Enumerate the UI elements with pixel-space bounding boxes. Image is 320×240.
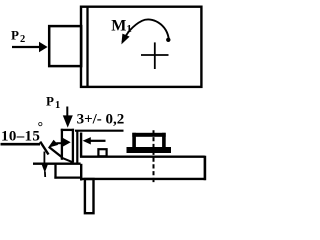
base bar right edge	[204, 156, 207, 181]
blade bevel edge	[61, 157, 74, 162]
gap dimension line left	[56, 142, 63, 144]
step block right wall	[80, 164, 82, 181]
holder edge upper	[80, 133, 82, 158]
arrow P2	[12, 42, 48, 53]
base bar top	[80, 156, 205, 158]
moment arc arrow M1	[121, 19, 170, 44]
small stop bump	[98, 149, 106, 156]
anvil top thick edge	[132, 133, 165, 137]
housing box	[81, 7, 201, 87]
dashed centerline	[153, 130, 155, 183]
blade right wall	[72, 129, 74, 163]
leg below bar	[85, 179, 94, 213]
anvil right wall	[162, 133, 166, 148]
plunger block	[49, 26, 81, 66]
underline of 10-15	[1, 143, 41, 146]
blade left wall	[61, 129, 63, 160]
anvil left wall	[132, 133, 136, 148]
inner wall line	[86, 7, 88, 87]
die plate edge	[76, 132, 78, 164]
angle extension vertical line	[43, 152, 45, 164]
incline leader diagonal	[49, 147, 62, 157]
blade top edge	[61, 129, 74, 131]
leader steep line	[40, 142, 48, 155]
step block bottom	[54, 176, 80, 178]
angle arrow down	[42, 164, 48, 177]
svg-text:10–15: 10–15	[1, 128, 40, 144]
underline of 3+/- 0,2	[75, 130, 124, 132]
anvil base plate	[127, 147, 172, 153]
svg-text:3+/- 0,2: 3+/- 0,2	[77, 112, 125, 128]
step block left wall	[54, 165, 56, 179]
table top line	[33, 163, 81, 165]
angle arrow upper	[48, 140, 58, 148]
base bar bottom	[82, 178, 206, 180]
arrow P1	[63, 107, 73, 128]
center cross	[141, 42, 169, 69]
gap dimension arrow left-pointing	[83, 137, 106, 144]
svg-text:°: °	[38, 119, 43, 134]
gap dimension arrow right-pointing	[63, 138, 71, 147]
